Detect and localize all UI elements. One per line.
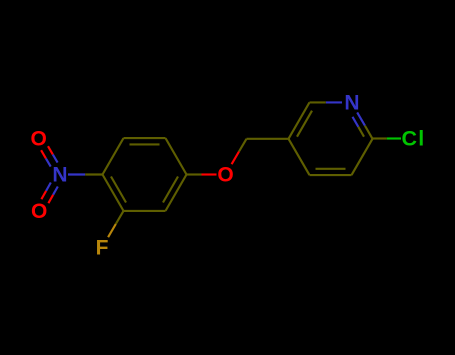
double bond N=O (nitro bottom) <box>46 183 51 191</box>
benzene ring edge Cbr-Cbl <box>124 210 166 212</box>
pyridine edge C2=N1 (double) <box>357 112 365 125</box>
svg-text:O: O <box>217 164 233 187</box>
svg-text:O: O <box>31 127 47 150</box>
pyridine edge N1-C6 <box>326 101 342 103</box>
svg-text:O: O <box>31 200 47 223</box>
svg-text:Cl: Cl <box>402 127 426 151</box>
benzene ring edge Cr-Cbr (double) <box>166 175 187 211</box>
pyridine edge C3-C2 <box>352 139 373 175</box>
benzene ring edge C1-Ctl <box>103 138 124 174</box>
svg-text:F: F <box>96 237 109 260</box>
benzene ring edge Ctl-Ctr (double) <box>124 137 166 139</box>
pyridine edge C5-C4 <box>289 139 310 175</box>
bond Cbl-F <box>116 211 124 224</box>
bond C2-Cl <box>373 137 387 139</box>
benzene ring edge Ctr-Cr <box>166 138 187 174</box>
pyridine edge C6-C5 (double) <box>289 102 310 138</box>
svg-text:N: N <box>52 164 67 187</box>
bond O(ether)-CH2 <box>232 152 239 165</box>
pyridine edge C4-C3 (double) <box>310 174 352 176</box>
svg-text:N: N <box>344 91 359 114</box>
bond C1-N(nitro) <box>68 173 85 175</box>
benzene ring edge Cbl-C1 (double) <box>103 175 124 211</box>
double bond N=O (nitro top) <box>53 154 58 162</box>
bond Cr-O(ether) <box>187 173 202 175</box>
bond CH2-C5(pyridine) <box>247 138 289 140</box>
